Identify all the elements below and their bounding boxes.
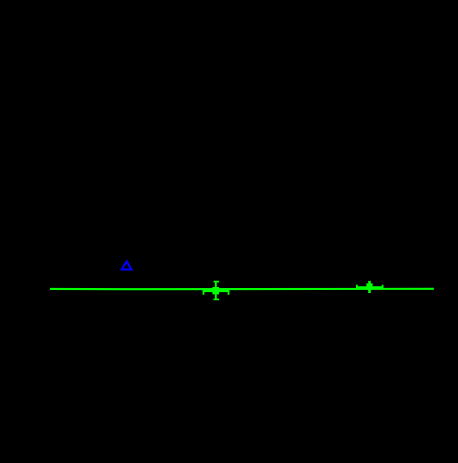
- green model line: [50, 288, 434, 291]
- data point 2 horizontal error bar right cap: [382, 285, 384, 290]
- data point 1 vertical error bar: [215, 282, 217, 300]
- data point 1 vertical error bar bottom cap: [214, 298, 220, 300]
- data point 1 vertical error bar top cap: [214, 281, 220, 283]
- data point 1 horizontal error bar right cap: [228, 289, 230, 295]
- data point 2 vertical error bar: [368, 281, 371, 293]
- data point 1 horizontal error bar: [203, 290, 230, 293]
- blue open triangle upper-limit marker: [122, 261, 132, 269]
- data point 1 square marker: [212, 287, 219, 294]
- data point 2 horizontal error bar: [356, 286, 383, 288]
- data point 2 square marker: [366, 283, 372, 290]
- data point 1 horizontal error bar left cap: [203, 289, 205, 295]
- data point 2 horizontal error bar left cap: [356, 285, 358, 290]
